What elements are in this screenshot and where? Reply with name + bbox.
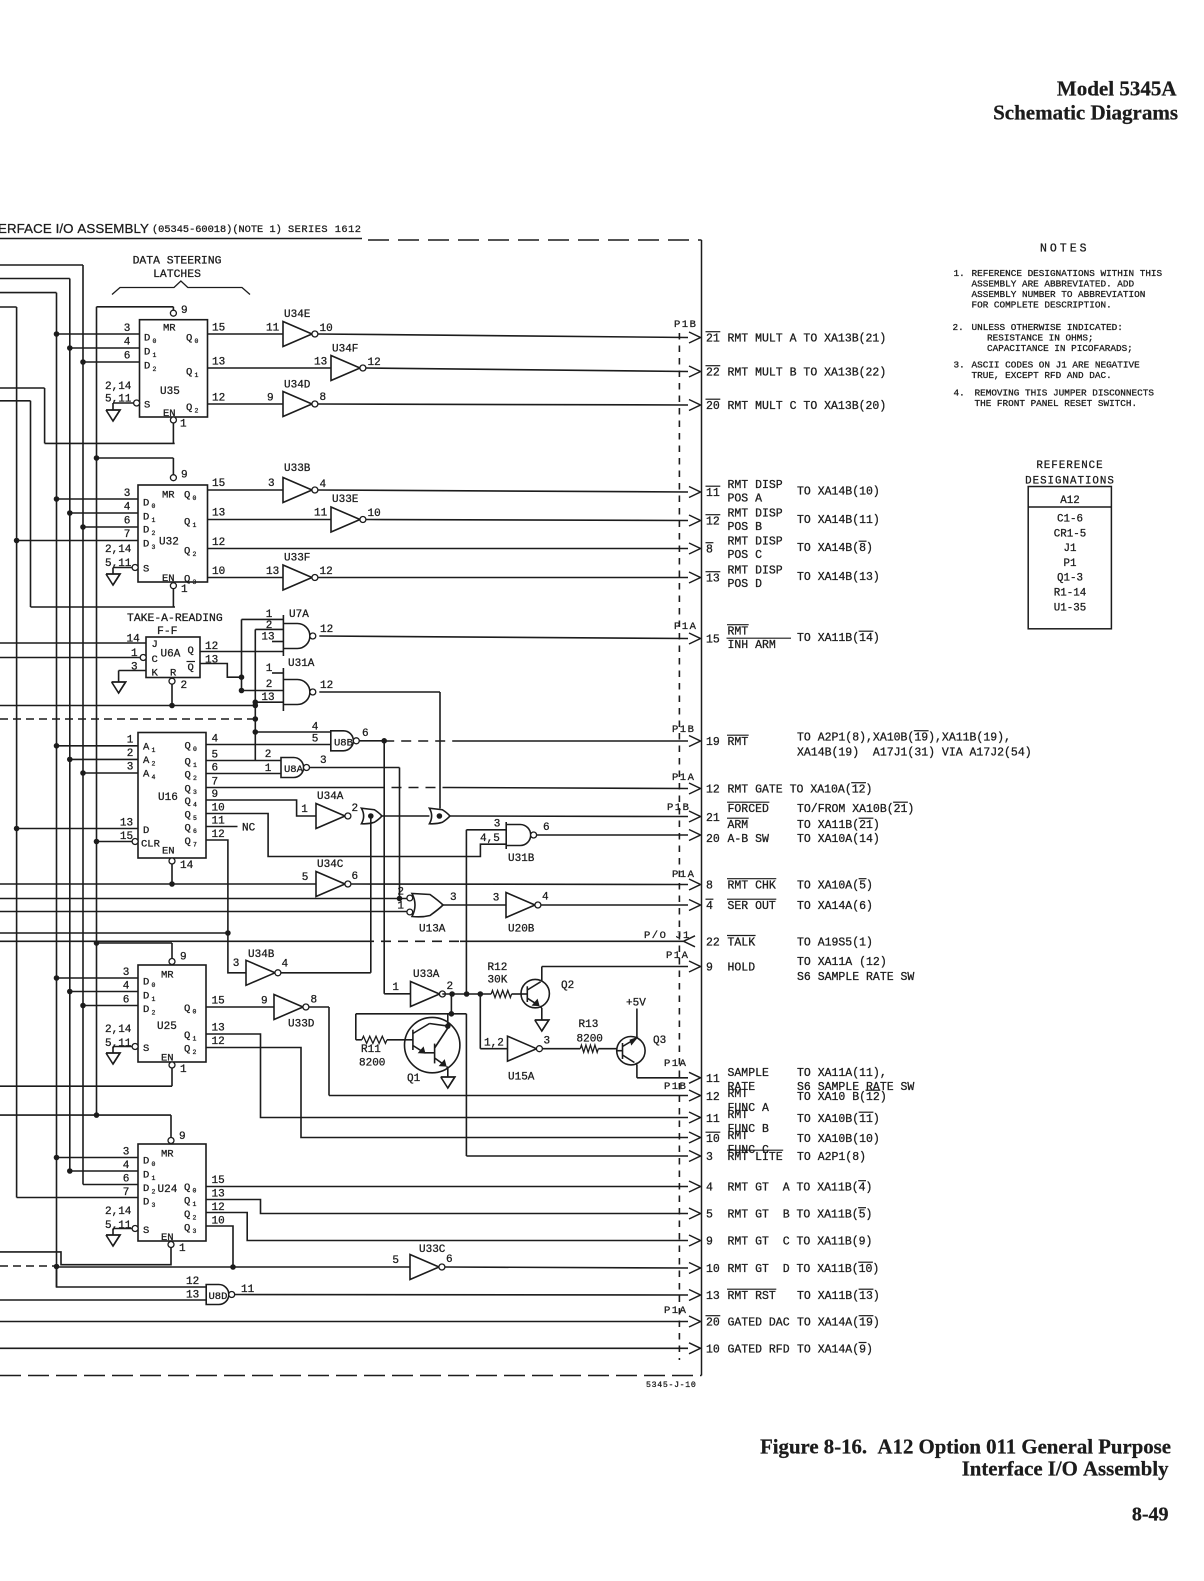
svg-text:TO XA14B(8): TO XA14B(8) xyxy=(797,542,873,555)
wire: data bus vertical x56 xyxy=(0,292,57,294)
svg-text:TO XA10A(14): TO XA10A(14) xyxy=(797,833,880,846)
P1B pin 12 RMT FUNC A xyxy=(689,1090,701,1101)
nand U8A xyxy=(281,758,304,778)
svg-text:3: 3 xyxy=(193,789,197,796)
svg-text:TO XA14B(11): TO XA14B(11) xyxy=(797,514,880,527)
svg-text:NC: NC xyxy=(242,823,256,835)
P1A pin 20 GATED DAC xyxy=(689,1316,701,1327)
riser or1 to U34B out / talk xyxy=(370,816,372,973)
svg-text:Q: Q xyxy=(185,770,191,782)
svg-text:P1B: P1B xyxy=(664,1081,687,1093)
svg-text:SERIES 1612: SERIES 1612 xyxy=(288,224,361,236)
svg-text:10: 10 xyxy=(368,508,381,520)
svg-text:1: 1 xyxy=(153,352,157,359)
svg-text:8: 8 xyxy=(311,995,318,1007)
svg-text:0: 0 xyxy=(152,503,156,510)
svg-text:9: 9 xyxy=(267,393,274,405)
svg-text:A: A xyxy=(143,769,150,781)
svg-text:Q: Q xyxy=(184,1223,190,1235)
wire U16 EN / U34C input xyxy=(0,883,316,885)
svg-text:SAMPLE: SAMPLE xyxy=(728,1067,770,1080)
svg-text:10: 10 xyxy=(706,1133,720,1146)
svg-text:3.: 3. xyxy=(954,360,965,371)
assembly boundary dashed top xyxy=(368,239,702,241)
svg-text:D: D xyxy=(143,825,149,837)
svg-text:U13A: U13A xyxy=(419,924,446,936)
svg-text:D: D xyxy=(143,1156,149,1168)
svg-text:1: 1 xyxy=(301,804,308,816)
svg-text:RMT: RMT xyxy=(728,1109,749,1122)
svg-text:1: 1 xyxy=(152,996,156,1003)
svg-text:J1: J1 xyxy=(1064,543,1077,555)
svg-text:4: 4 xyxy=(193,802,197,809)
svg-text:U8D: U8D xyxy=(209,1291,228,1303)
svg-text:0: 0 xyxy=(193,1009,197,1016)
svg-text:TO XA10B(10): TO XA10B(10) xyxy=(797,1133,880,1146)
svg-text:0: 0 xyxy=(152,1161,156,1168)
svg-text:4: 4 xyxy=(320,479,327,491)
svg-text:U33A: U33A xyxy=(413,969,440,981)
ground below U6A K xyxy=(112,682,126,693)
svg-text:1: 1 xyxy=(193,522,197,529)
U6A R output pin 2 xyxy=(169,678,175,684)
svg-text:D: D xyxy=(143,525,149,537)
svg-text:RMT GT B TO XA11B(5): RMT GT B TO XA11B(5) xyxy=(728,1209,873,1222)
svg-text:TO XA11A (12): TO XA11A (12) xyxy=(797,956,887,969)
svg-text:S: S xyxy=(143,564,149,576)
svg-text:Model 5345A: Model 5345A xyxy=(1057,77,1177,101)
svg-text:D: D xyxy=(143,498,149,510)
svg-text:9: 9 xyxy=(261,996,268,1008)
svg-text:3: 3 xyxy=(131,662,138,674)
connector dashed line xyxy=(678,333,680,1360)
svg-text:ASSEMBLY ARE ABBREVIATED. ADD: ASSEMBLY ARE ABBREVIATED. ADD xyxy=(972,278,1135,289)
svg-text:R1-14: R1-14 xyxy=(1054,588,1086,600)
svg-text:D: D xyxy=(143,1170,149,1182)
wire: data bus vertical x83 xyxy=(0,264,83,266)
svg-text:3: 3 xyxy=(233,958,240,970)
svg-text:TO A2P1(8): TO A2P1(8) xyxy=(797,1151,866,1164)
svg-text:S6 SAMPLE RATE SW: S6 SAMPLE RATE SW xyxy=(797,971,914,984)
svg-text:REMOVING THIS JUMPER DISCONNEC: REMOVING THIS JUMPER DISCONNECTS xyxy=(975,388,1155,399)
svg-text:TO XA11B(14): TO XA11B(14) xyxy=(797,632,880,645)
svg-text:TRUE, EXCEPT RFD AND DAC.: TRUE, EXCEPT RFD AND DAC. xyxy=(972,370,1112,381)
svg-text:12: 12 xyxy=(706,1091,720,1104)
P1A pin 13 RMT RST xyxy=(689,1290,701,1301)
P1B pin 12 RMT DISP POS B xyxy=(689,515,701,526)
svg-text:2: 2 xyxy=(193,1049,197,1056)
svg-text:RMT MULT B TO XA13B(22): RMT MULT B TO XA13B(22) xyxy=(728,367,887,380)
U35 MR pin 9 xyxy=(170,310,176,316)
svg-text:2: 2 xyxy=(193,1215,197,1222)
riser x255 reset net xyxy=(254,629,256,732)
svg-text:12: 12 xyxy=(212,1036,225,1048)
svg-text:U34E: U34E xyxy=(284,309,311,321)
svg-text:2: 2 xyxy=(127,748,134,760)
P1B pin 20 A-B SW xyxy=(689,830,701,841)
svg-text:0: 0 xyxy=(193,1188,197,1195)
svg-text:D: D xyxy=(143,1183,149,1195)
svg-text:11: 11 xyxy=(314,508,328,520)
svg-text:ASCII CODES ON J1 ARE NEGATIVE: ASCII CODES ON J1 ARE NEGATIVE xyxy=(972,360,1141,371)
svg-text:Interface I/O Assembly: Interface I/O Assembly xyxy=(962,1458,1169,1481)
svg-text:Q: Q xyxy=(185,823,191,835)
svg-text:Q2: Q2 xyxy=(561,980,574,992)
svg-text:U25: U25 xyxy=(157,1021,177,1033)
wire U34B out to riser x370 xyxy=(281,972,371,974)
P1B pin 20 wire label RMT MULT C xyxy=(689,400,701,411)
svg-text:ARM: ARM xyxy=(728,819,749,832)
svg-text:TO XA11B(21): TO XA11B(21) xyxy=(797,819,880,832)
P1A pin 4 RMT GT A xyxy=(689,1181,701,1192)
wire U33C to P1A-10 RMT GT D xyxy=(445,1267,688,1268)
svg-text:TO XA11B(13): TO XA11B(13) xyxy=(797,1290,880,1303)
svg-text:3: 3 xyxy=(152,1202,156,1209)
svg-text:U15A: U15A xyxy=(508,1072,535,1084)
wire U33D to P1B-12 RMT FUNC A xyxy=(309,1006,329,1008)
svg-text:1,2: 1,2 xyxy=(484,1038,504,1050)
svg-text:8: 8 xyxy=(706,880,713,893)
svg-text:U35: U35 xyxy=(160,386,180,398)
svg-text:9: 9 xyxy=(181,470,188,482)
svg-text:30K: 30K xyxy=(488,975,508,987)
assembly boundary dashed bottom xyxy=(0,1375,702,1377)
latch U35 xyxy=(140,320,208,417)
svg-text:HOLD: HOLD xyxy=(728,962,756,975)
svg-text:Q: Q xyxy=(184,1182,190,1194)
svg-text:J: J xyxy=(152,639,158,651)
svg-text:2: 2 xyxy=(195,408,199,415)
svg-text:P1A: P1A xyxy=(672,869,695,881)
svg-text:8: 8 xyxy=(320,392,327,404)
svg-text:TO XA14A(19): TO XA14A(19) xyxy=(797,1317,880,1330)
svg-text:1: 1 xyxy=(180,419,187,431)
svg-text:Q: Q xyxy=(186,333,192,345)
P1A pin 3 RMT LITE xyxy=(689,1151,701,1162)
svg-text:U33C: U33C xyxy=(419,1244,446,1256)
svg-text:Q: Q xyxy=(184,546,190,558)
svg-text:TO/FROM XA10B(21): TO/FROM XA10B(21) xyxy=(797,803,914,816)
svg-text:U24: U24 xyxy=(158,1184,178,1196)
svg-text:TO XA14A(6): TO XA14A(6) xyxy=(797,900,873,913)
svg-text:1: 1 xyxy=(181,584,188,596)
svg-text:POS C: POS C xyxy=(728,549,763,562)
svg-text:CR1-5: CR1-5 xyxy=(1054,528,1086,540)
P1A pin 10 RMT GT D xyxy=(689,1263,701,1274)
P1B pin 8 RMT DISP POS C xyxy=(689,543,701,554)
svg-text:19: 19 xyxy=(706,736,720,749)
svg-text:REFERENCE: REFERENCE xyxy=(1036,460,1103,472)
latch U32 xyxy=(138,485,208,582)
svg-text:XA14B(19) A17J1(31) VIA A17J2: XA14B(19) A17J1(31) VIA A17J2(54) xyxy=(797,747,1032,760)
svg-text:3: 3 xyxy=(450,892,457,904)
wire: U35 EN feed via x44 xyxy=(0,387,45,389)
svg-text:12: 12 xyxy=(320,566,333,578)
wire: data bus vertical x17 xyxy=(0,306,17,308)
svg-text:3: 3 xyxy=(493,893,500,905)
svg-text:POS A: POS A xyxy=(728,493,763,506)
svg-text:U34A: U34A xyxy=(317,791,344,803)
svg-text:1: 1 xyxy=(180,1064,187,1076)
svg-text:U33D: U33D xyxy=(288,1019,315,1031)
svg-text:MR: MR xyxy=(162,490,175,502)
or blob 2 xyxy=(429,808,450,824)
svg-text:0: 0 xyxy=(152,982,156,989)
brace xyxy=(112,281,250,295)
svg-text:15: 15 xyxy=(212,478,225,490)
wire: jumper dash-dot (note 4) xyxy=(0,718,255,720)
svg-text:CLR: CLR xyxy=(141,839,161,851)
svg-text:2: 2 xyxy=(193,551,197,558)
P1B pin 11 RMT DISP POS A xyxy=(689,487,701,498)
svg-text:RESISTANCE IN OHMS;: RESISTANCE IN OHMS; xyxy=(987,332,1094,343)
riser x241 to U7A pin1 xyxy=(241,619,243,690)
svg-text:5: 5 xyxy=(706,1209,713,1222)
svg-text:U16: U16 xyxy=(158,792,178,804)
svg-text:TO XA10A(5): TO XA10A(5) xyxy=(797,880,873,893)
svg-text:Q: Q xyxy=(188,662,194,674)
P1A pin 15 RMT INH ARM xyxy=(689,633,701,644)
svg-text:Schematic Diagrams: Schematic Diagrams xyxy=(993,101,1178,125)
wire TALK from left (part dashed) xyxy=(0,940,364,942)
svg-text:1: 1 xyxy=(152,747,156,754)
svg-text:R11: R11 xyxy=(361,1044,381,1056)
svg-text:U33E: U33E xyxy=(332,494,359,506)
P1A pin 11 SAMPLE RATE xyxy=(689,1072,701,1083)
svg-text:1.: 1. xyxy=(954,268,965,279)
wire between blobs xyxy=(382,815,430,817)
svg-text:0: 0 xyxy=(193,746,197,753)
svg-text:12: 12 xyxy=(706,784,720,797)
svg-text:POS B: POS B xyxy=(728,521,763,534)
U8B pin4 wire xyxy=(255,731,330,733)
svg-text:4: 4 xyxy=(124,502,131,514)
svg-text:CAPACITANCE IN PICOFARADS;: CAPACITANCE IN PICOFARADS; xyxy=(987,343,1133,354)
Q2 emitter to ground xyxy=(540,1006,542,1008)
svg-text:12: 12 xyxy=(368,357,381,369)
svg-text:13: 13 xyxy=(205,655,218,667)
svg-text:6: 6 xyxy=(446,1254,453,1266)
svg-text:P1A: P1A xyxy=(672,772,695,784)
svg-text:DATA STEERING: DATA STEERING xyxy=(133,255,222,267)
svg-text:D: D xyxy=(143,539,149,551)
wire U34C to P1A-8 RMT CHK xyxy=(351,883,688,886)
svg-text:2: 2 xyxy=(193,775,197,782)
wire to P1B-21 FORCED ARM xyxy=(450,815,688,818)
svg-text:Figure 8-16. A12 Option 011 G: Figure 8-16. A12 Option 011 General Purp… xyxy=(760,1436,1171,1459)
svg-text:12: 12 xyxy=(320,680,333,692)
svg-text:Q: Q xyxy=(186,402,192,414)
svg-text:20: 20 xyxy=(706,833,720,846)
svg-text:K: K xyxy=(152,668,159,680)
svg-text:1: 1 xyxy=(193,762,197,769)
svg-text:13: 13 xyxy=(266,566,279,578)
svg-text:22: 22 xyxy=(706,936,720,949)
svg-text:RMT DISP: RMT DISP xyxy=(728,479,783,492)
wire U15A out to R13 xyxy=(542,1048,580,1050)
svg-text:4: 4 xyxy=(542,892,549,904)
U24 MR pin 9 wire xyxy=(168,1138,174,1144)
svg-text:U32: U32 xyxy=(159,537,179,549)
U34B out line and riser joins xyxy=(0,932,228,934)
svg-text:D: D xyxy=(144,361,150,373)
svg-text:2: 2 xyxy=(266,679,273,691)
svg-text:TO XA14B(10): TO XA14B(10) xyxy=(797,486,880,499)
wire U8A out riser to U13A xyxy=(309,767,399,769)
P1B pin 13 RMT DISP POS D xyxy=(689,572,701,583)
svg-text:10: 10 xyxy=(706,1343,720,1356)
svg-text:7: 7 xyxy=(193,842,197,849)
J1 pin 22 TALK xyxy=(684,936,696,947)
svg-text:Q: Q xyxy=(184,1030,190,1042)
svg-text:THE FRONT PANEL RESET SWITCH.: THE FRONT PANEL RESET SWITCH. xyxy=(975,398,1138,409)
svg-text:U33B: U33B xyxy=(284,463,311,475)
svg-text:11: 11 xyxy=(266,323,280,335)
U13A pin1 wire from left xyxy=(0,911,407,913)
svg-text:12: 12 xyxy=(212,393,225,405)
flip-flop U6A xyxy=(146,637,200,678)
svg-text:TAKE-A-READING: TAKE-A-READING xyxy=(127,613,223,625)
svg-text:13: 13 xyxy=(706,1290,720,1303)
svg-text:R13: R13 xyxy=(579,1019,599,1031)
svg-text:12: 12 xyxy=(212,537,225,549)
svg-text:5345-J-10: 5345-J-10 xyxy=(646,1381,697,1390)
P1B pin 19 RMT xyxy=(689,736,701,747)
svg-text:3: 3 xyxy=(127,762,134,774)
U16 EN pin 14 xyxy=(169,858,175,864)
P1B pin 21 FORCED ARM xyxy=(689,811,701,822)
svg-text:20: 20 xyxy=(706,400,720,413)
svg-text:Q1-3: Q1-3 xyxy=(1057,573,1083,585)
svg-text:TO A19S5(1): TO A19S5(1) xyxy=(797,936,873,949)
svg-text:20: 20 xyxy=(706,1317,720,1330)
svg-text:RMT DISP: RMT DISP xyxy=(728,565,783,578)
svg-text:2: 2 xyxy=(152,530,156,537)
wire U33A out with junctions xyxy=(442,993,491,995)
svg-text:TO XA11A(11),: TO XA11A(11), xyxy=(797,1067,887,1080)
svg-text:TO XA10B(11): TO XA10B(11) xyxy=(797,1113,880,1126)
svg-text:A: A xyxy=(143,742,150,754)
svg-text:8200: 8200 xyxy=(359,1058,385,1070)
U33C input line from left (dashed at left) xyxy=(0,1265,57,1267)
svg-text:RMT GATE TO XA10A(12): RMT GATE TO XA10A(12) xyxy=(728,784,873,797)
svg-text:NOTES: NOTES xyxy=(1040,243,1090,256)
svg-text:S: S xyxy=(143,1043,149,1055)
svg-text:D: D xyxy=(143,1197,149,1209)
svg-text:FOR COMPLETE DESCRIPTION.: FOR COMPLETE DESCRIPTION. xyxy=(972,299,1112,310)
svg-text:9: 9 xyxy=(179,1131,186,1143)
nand U8D xyxy=(206,1285,229,1305)
svg-text:A: A xyxy=(143,755,150,767)
svg-text:U34C: U34C xyxy=(317,859,344,871)
svg-text:0: 0 xyxy=(195,338,199,345)
wire U31B out to P1B-20 A-B SW xyxy=(537,834,688,836)
svg-text:2,14: 2,14 xyxy=(105,1206,132,1218)
svg-text:10: 10 xyxy=(706,1263,720,1276)
svg-text:6: 6 xyxy=(124,351,131,363)
svg-text:12: 12 xyxy=(320,624,333,636)
svg-text:4,5: 4,5 xyxy=(480,833,500,845)
svg-text:15: 15 xyxy=(212,323,225,335)
P1A pin 8 RMT CHK xyxy=(689,879,701,890)
svg-text:A12: A12 xyxy=(1060,495,1079,507)
svg-text:Q: Q xyxy=(184,1044,190,1056)
svg-text:MR: MR xyxy=(161,1149,174,1161)
svg-text:Q: Q xyxy=(185,784,191,796)
svg-text:Q: Q xyxy=(184,1209,190,1221)
U32 EN pin 1 xyxy=(170,583,176,589)
svg-text:D: D xyxy=(143,1004,149,1016)
svg-text:6: 6 xyxy=(193,828,197,835)
svg-text:TO XA10 B(12): TO XA10 B(12) xyxy=(797,1091,887,1104)
svg-text:U33F: U33F xyxy=(284,553,310,565)
wire GATED DAC to P1A-20 xyxy=(0,1321,688,1323)
svg-text:ASSEMBLY NUMBER TO ABBREVIATIO: ASSEMBLY NUMBER TO ABBREVIATION xyxy=(972,289,1146,300)
svg-text:2: 2 xyxy=(397,887,404,899)
svg-text:P1B: P1B xyxy=(667,802,690,814)
svg-text:Q: Q xyxy=(184,1003,190,1015)
svg-text:Q: Q xyxy=(184,517,190,529)
wire U33B to P1B-11 xyxy=(318,490,688,492)
title underline xyxy=(0,238,362,240)
wire U34F to P1B-22 xyxy=(366,368,688,372)
P1A pin 5 RMT GT B xyxy=(689,1208,701,1219)
svg-text:U8A: U8A xyxy=(284,764,304,776)
svg-text:1: 1 xyxy=(152,1175,156,1182)
svg-text:U34D: U34D xyxy=(284,380,311,392)
wire: U32 EN feed via x30 xyxy=(0,400,31,402)
svg-text:9: 9 xyxy=(181,305,188,317)
svg-text:1: 1 xyxy=(193,1201,197,1208)
svg-text:6: 6 xyxy=(352,871,359,883)
svg-text:9: 9 xyxy=(706,1236,713,1249)
svg-text:TO XA14A(9): TO XA14A(9) xyxy=(797,1343,873,1356)
ground below U24 S xyxy=(106,1235,120,1246)
decoder U16 xyxy=(138,733,206,859)
U25 EN pin 1 wire xyxy=(169,1062,175,1068)
Q1 emitter ground xyxy=(447,1067,448,1069)
svg-text:MR: MR xyxy=(163,323,176,335)
assembly boundary right vertical xyxy=(701,240,703,1376)
svg-text:3: 3 xyxy=(268,478,275,490)
U32 MR pin 9 xyxy=(170,475,176,481)
svg-text:2: 2 xyxy=(352,803,359,815)
wire U20B to P1A-4 SER OUT xyxy=(541,904,688,906)
wire U8B out to P1B-19 (part dashed) xyxy=(359,740,384,742)
svg-text:2: 2 xyxy=(265,749,272,761)
svg-text:RMT: RMT xyxy=(728,736,749,749)
wire U31A out to OR blob xyxy=(319,691,440,693)
svg-text:RMT RST: RMT RST xyxy=(728,1290,776,1303)
P1A pin 12 RMT GATE xyxy=(689,783,701,794)
svg-text:2: 2 xyxy=(447,981,454,993)
svg-text:RMT DISP: RMT DISP xyxy=(728,536,783,549)
svg-text:1: 1 xyxy=(179,1243,186,1255)
ground below U35 S xyxy=(106,410,120,421)
U35 EN pin 1 xyxy=(170,417,176,423)
svg-text:Q: Q xyxy=(185,757,191,769)
svg-text:1: 1 xyxy=(195,372,199,379)
wire: master reset vertical x96 xyxy=(96,307,98,1115)
svg-text:2: 2 xyxy=(152,761,156,768)
svg-text:3: 3 xyxy=(706,1151,713,1164)
svg-text:RMT CHK: RMT CHK xyxy=(728,880,776,893)
svg-text:4: 4 xyxy=(706,900,713,913)
svg-text:5: 5 xyxy=(392,1255,399,1267)
svg-text:RMT MULT C TO XA13B(20): RMT MULT C TO XA13B(20) xyxy=(728,400,887,413)
P1B pin 10 RMT FUNC C xyxy=(689,1132,701,1143)
wire U34E to P1B-21 xyxy=(318,334,688,338)
